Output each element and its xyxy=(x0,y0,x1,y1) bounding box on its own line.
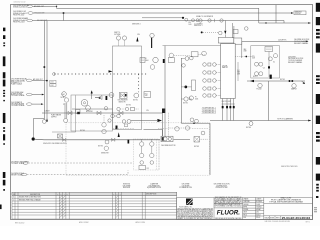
svg-text:NOTE 6: NOTE 6 xyxy=(246,127,251,129)
wire G5 xyxy=(32,94,43,96)
pump suction line pair xyxy=(65,103,67,118)
riser pair lower segment xyxy=(163,46,166,137)
dashes right of eductor xyxy=(200,138,209,140)
circles in box C xyxy=(273,54,277,58)
diffuser labels xyxy=(202,108,216,115)
black mark on riser pair xyxy=(163,59,165,63)
long signal riser pair left xyxy=(43,21,45,120)
small circles on line xyxy=(108,119,111,122)
cylinder manifold dashed box xyxy=(134,139,160,170)
riser foot instruments xyxy=(42,120,46,124)
svg-text:FROM FIC-1003: FROM FIC-1003 xyxy=(13,22,25,24)
svg-text:REV 1: REV 1 xyxy=(276,218,280,220)
instrument AIT circle xyxy=(62,92,67,97)
signal tag group G2 texts xyxy=(13,11,28,16)
second pump circle xyxy=(86,106,91,111)
gate valve 1 on main line xyxy=(68,111,72,114)
black node on riser xyxy=(184,86,187,89)
arrowhead header right xyxy=(308,120,311,122)
svg-text:NOTE 5: NOTE 5 xyxy=(183,102,188,104)
svg-text:I-102: I-102 xyxy=(50,85,53,87)
arrowhead G5 to riser xyxy=(42,94,44,96)
svg-text:NOTE 4: NOTE 4 xyxy=(126,105,131,107)
box C micro labels xyxy=(252,56,275,78)
middle column dense rows xyxy=(215,196,242,207)
top band instrument circles xyxy=(116,36,120,40)
clarifier inlet stub xyxy=(33,119,44,136)
black arrow top band xyxy=(136,37,138,42)
svg-text:2-INCH PVC: 2-INCH PVC xyxy=(288,56,296,58)
svg-text:3-INCH PVC CHLORINE SOLUTION: 3-INCH PVC CHLORINE SOLUTION xyxy=(43,143,67,145)
svg-text:1-IN: 1-IN xyxy=(146,110,149,112)
svg-text:PROJ: PROJ xyxy=(243,214,247,216)
svg-text:CHLORINE FLOW: CHLORINE FLOW xyxy=(13,11,26,13)
instrument row 2 xyxy=(203,71,221,75)
signal tag G6 oval xyxy=(26,103,32,106)
black arrow into riser xyxy=(131,120,157,122)
instruments on solution pipe xyxy=(105,140,109,144)
svg-text:CHLOR-: CHLOR- xyxy=(222,66,228,68)
water supply pipe 2-inch to right xyxy=(242,40,308,42)
existing equipment boundary box xyxy=(66,123,209,175)
signal tag G7 oval xyxy=(23,162,28,165)
suction instrument circles xyxy=(64,98,68,102)
svg-text:REV 04/22/02: REV 04/22/02 xyxy=(15,222,25,224)
svg-text:CH: CH xyxy=(116,194,118,196)
svg-text:25-04-EF-204-00104: 25-04-EF-204-00104 xyxy=(282,216,311,220)
address paragraph xyxy=(177,207,213,220)
signal tag G5 oval xyxy=(26,93,32,96)
solution header to clarifiers xyxy=(210,120,311,122)
small strainer box xyxy=(58,134,63,138)
small relay box above xyxy=(233,30,238,34)
svg-text:VENT TO: VENT TO xyxy=(114,32,121,34)
svg-text:DISTRIBUTION: DISTRIBUTION xyxy=(216,185,227,187)
bold valve stem top band xyxy=(151,38,153,48)
svg-text:1006: 1006 xyxy=(195,98,198,100)
node tie G2-G3 xyxy=(63,13,65,21)
svg-text:TYPICAL INSTRUMENTATION DIAGRA: TYPICAL INSTRUMENTATION DIAGRAM xyxy=(269,200,303,203)
svg-text:NOTE 8: NOTE 8 xyxy=(194,146,199,148)
instrument row below line xyxy=(111,114,115,118)
eductor feed elbow xyxy=(144,130,163,136)
svg-text:LINE: LINE xyxy=(237,73,240,75)
control valve on box A top area xyxy=(120,92,128,98)
auxiliary signal wire xyxy=(142,17,182,19)
approvals column rows xyxy=(243,197,262,219)
svg-text:INJECTOR: INJECTOR xyxy=(119,101,126,103)
svg-text:XXX-104: XXX-104 xyxy=(295,13,301,15)
circle right of boxes xyxy=(245,27,249,31)
signal tag group G5 texts xyxy=(11,91,25,97)
riser to header xyxy=(267,81,269,121)
section header label 4 xyxy=(214,184,230,190)
svg-text:PIPING SYSTEM: PIPING SYSTEM xyxy=(216,187,228,189)
svg-text:CL2: CL2 xyxy=(147,168,150,170)
svg-text:04/22/02 11:42: 04/22/02 11:42 xyxy=(14,1,26,3)
existing chlorinator boundary box C xyxy=(251,46,280,78)
svg-text:OUTSIDE: OUTSIDE xyxy=(114,34,120,36)
section header label 1 xyxy=(123,184,131,190)
svg-text:CL2: CL2 xyxy=(237,70,240,72)
black mark at riser pair bottom xyxy=(162,109,165,114)
block to box C tie xyxy=(235,56,252,58)
instrument air dashed header xyxy=(54,73,147,75)
svg-text:T.WONG: T.WONG xyxy=(256,206,261,208)
sample line to analyzers xyxy=(247,80,305,82)
clarifier outlet pipe xyxy=(35,138,160,141)
chlorinator outlet drop wires xyxy=(223,99,234,121)
svg-text:CHLORINE: CHLORINE xyxy=(182,184,190,186)
below line instruments left xyxy=(102,123,106,127)
svg-text:NO: NO xyxy=(13,194,15,196)
drop manifold tie xyxy=(222,103,235,105)
svg-text:J.SMITH: J.SMITH xyxy=(256,198,261,200)
svg-text:TO DIFFUSER NO. 3: TO DIFFUSER NO. 3 xyxy=(202,112,216,114)
small box below cluster xyxy=(139,166,146,170)
svg-text:V-3: V-3 xyxy=(263,67,265,69)
arrowhead at right frame xyxy=(308,22,311,24)
panel boundary box A xyxy=(113,46,142,130)
manifold stems xyxy=(142,139,152,153)
svg-text:CH: CH xyxy=(60,194,62,196)
relay box lower right xyxy=(194,137,200,143)
gate valve 3 on main line xyxy=(119,111,123,114)
labels right of box C xyxy=(288,56,303,64)
microtext below frame xyxy=(15,220,310,224)
pressure gauge on riser xyxy=(184,97,188,101)
svg-text:FILE: FILE xyxy=(243,217,246,219)
rotameter circle in box B xyxy=(153,57,158,62)
svg-text:CHLORINE SOLUTION: CHLORINE SOLUTION xyxy=(294,39,309,41)
wire G7 xyxy=(28,162,133,164)
svg-text:BY: BY xyxy=(57,194,59,196)
seal pot xyxy=(192,80,196,91)
svg-text:NONE: NONE xyxy=(270,218,274,220)
node at wire end xyxy=(182,17,184,19)
svg-text:1-IN: 1-IN xyxy=(137,34,140,36)
fluor logo square xyxy=(186,199,193,206)
instrument row 1 xyxy=(203,63,221,67)
node G4 on riser xyxy=(46,80,48,82)
circle at panel left edge xyxy=(150,65,155,70)
small box in box C xyxy=(265,47,273,52)
svg-text:I-101: I-101 xyxy=(50,81,53,83)
instrument row on discharge xyxy=(104,107,107,110)
gas outlet line right of block xyxy=(241,41,243,58)
signal tag G8 oval xyxy=(22,173,27,176)
wire down to regulator xyxy=(224,21,226,31)
right margin zone marks xyxy=(316,3,320,198)
gate valve 2 on main line xyxy=(97,111,101,114)
clarifier outlet node xyxy=(32,137,35,140)
wire G2 xyxy=(33,12,292,14)
black mark in box C xyxy=(268,66,270,68)
svg-text:NOTE 3: NOTE 3 xyxy=(98,145,103,147)
svg-text:EXISTING: EXISTING xyxy=(123,184,131,186)
title block outline xyxy=(177,198,313,220)
riser branch circle xyxy=(182,64,186,68)
svg-text:2-INCH PVC: 2-INCH PVC xyxy=(278,40,287,42)
vacuum line instruments xyxy=(168,113,170,138)
valve on solution pipe xyxy=(63,138,66,141)
svg-text:TO DIFFUSER NO. 2: TO DIFFUSER NO. 2 xyxy=(202,110,216,112)
wire G4 xyxy=(32,79,46,81)
signal tag group G6 texts xyxy=(11,101,25,107)
svg-text:600524: 600524 xyxy=(256,214,261,216)
instrument row 4 xyxy=(203,87,221,91)
signal tag group G3 texts xyxy=(13,17,29,23)
pump circle in box P xyxy=(81,100,88,107)
section header label 2 xyxy=(147,183,162,190)
destination tag G2 xyxy=(294,11,306,15)
bottom-left signal group G8 xyxy=(11,172,24,177)
svg-text:1005: 1005 xyxy=(189,24,192,26)
wire G6 xyxy=(32,103,42,105)
svg-text:D.LEE: D.LEE xyxy=(256,204,260,206)
wire pair into second box xyxy=(233,23,234,38)
black up arrow below box A xyxy=(118,132,120,137)
black valve mark in box P xyxy=(106,96,108,100)
svg-text:CHLORINE SOLUTION: CHLORINE SOLUTION xyxy=(214,184,230,186)
svg-text:EQUIPMENT ROOM: EQUIPMENT ROOM xyxy=(147,187,162,189)
svg-text:ISSUED FOR CONSTRUCTION: ISSUED FOR CONSTRUCTION xyxy=(19,197,41,199)
instrument on outlet riser xyxy=(189,96,193,100)
signal tag group G1 texts xyxy=(13,4,29,9)
eductor body xyxy=(161,136,173,141)
node on G1 wire xyxy=(56,6,57,7)
svg-text:BOOSTER: BOOSTER xyxy=(86,111,93,113)
main water supply line xyxy=(42,112,163,114)
pump discharge header xyxy=(72,108,113,110)
revision table xyxy=(12,192,177,219)
black tick below xyxy=(128,140,130,144)
svg-text:1009: 1009 xyxy=(252,58,255,60)
svg-text:BY: BY xyxy=(113,194,115,196)
svg-text:NOTE 2: NOTE 2 xyxy=(133,100,138,102)
node on collector xyxy=(265,22,266,23)
vacuum line right of block xyxy=(237,62,239,81)
signal tag G2 oval xyxy=(28,12,34,15)
black valve at box C bottom xyxy=(270,75,272,79)
drop valve nodes xyxy=(222,106,224,108)
svg-text:1007: 1007 xyxy=(145,95,148,97)
signal tag group G4 texts xyxy=(11,78,27,86)
svg-text:FLUOR.: FLUOR. xyxy=(217,211,241,217)
svg-text:SEE NOTES THIS DWG: SEE NOTES THIS DWG xyxy=(281,166,298,168)
injector symbol at box P top xyxy=(95,96,102,100)
panel top edge line xyxy=(163,45,221,47)
pump house boundary box P xyxy=(71,95,113,131)
wire G3 xyxy=(33,21,285,24)
manifold valve circles xyxy=(140,142,155,165)
svg-text:SEE NOTE 7: SEE NOTE 7 xyxy=(101,153,109,155)
svg-text:DT: DT xyxy=(67,194,69,196)
left margin zone marks xyxy=(0,28,5,210)
instrument row 3 xyxy=(203,79,221,83)
wire G1 xyxy=(33,6,259,23)
signal tag G1 oval xyxy=(27,5,33,8)
wire from frame top xyxy=(275,5,277,23)
sample instruments xyxy=(292,84,296,88)
svg-text:DESIGN: DESIGN xyxy=(243,204,248,206)
drawing title xyxy=(269,196,303,203)
circles row 2 in box C xyxy=(255,72,259,76)
svg-text:TO DIFFUSER NO. 1: TO DIFFUSER NO. 1 xyxy=(202,108,216,110)
analyzer circle on box A edge xyxy=(109,93,114,98)
svg-text:CL2 SUPPLY: CL2 SUPPLY xyxy=(194,23,203,25)
arrowhead G6 to riser xyxy=(41,103,43,105)
air filter box at box A corner xyxy=(140,58,145,63)
svg-text:BUILDING: BUILDING xyxy=(123,187,131,189)
eductor outlet xyxy=(174,138,191,140)
inner tie line in box C xyxy=(268,52,270,78)
section header label 3 xyxy=(179,184,192,190)
flow elements on signal line xyxy=(199,19,202,22)
building bottom edge left xyxy=(52,95,76,132)
svg-text:SEE NOTE 4: SEE NOTE 4 xyxy=(132,24,141,26)
svg-text:PID-04: PID-04 xyxy=(256,217,260,219)
supply dashed branch with node xyxy=(201,31,203,33)
arrow up in box P xyxy=(91,90,93,93)
instrument bubbles at node xyxy=(185,18,188,21)
dashed risers right of cluster xyxy=(156,139,159,170)
bottom-left signal group G7 xyxy=(11,160,29,165)
svg-text:NOTE 5: NOTE 5 xyxy=(280,79,285,81)
svg-text:FROM FIT-1002: FROM FIT-1002 xyxy=(13,15,24,17)
instrument air branch down xyxy=(138,74,140,92)
chlorinator main block xyxy=(221,44,236,99)
revision approval slashes xyxy=(60,195,119,217)
interlock tags right of riser xyxy=(50,80,56,83)
sample line end hook xyxy=(302,81,306,84)
wire top collector to right frame xyxy=(259,22,311,24)
svg-text:SEE NOTE 1: SEE NOTE 1 xyxy=(194,25,203,27)
svg-text:DESCRIPTION: DESCRIPTION xyxy=(146,194,156,196)
row of devices above instrument rows xyxy=(191,52,198,57)
svg-text:CHECKED: CHECKED xyxy=(243,201,249,203)
signal tag G4 oval xyxy=(26,79,32,82)
regulator box lower box B xyxy=(144,92,151,98)
right margin micro marks near title block xyxy=(314,207,317,212)
arrowhead sample line left xyxy=(250,80,254,82)
instrument row 5 xyxy=(203,94,221,98)
svg-text:CHLORINE: CHLORINE xyxy=(123,185,131,187)
node on riser xyxy=(44,66,46,68)
svg-text:LINE: LINE xyxy=(244,51,247,53)
svg-text:SHT 1: SHT 1 xyxy=(306,221,310,223)
signal tag G3 oval xyxy=(27,19,33,22)
arrowhead 2-inch pipe xyxy=(306,41,309,43)
vacuum regulator boxes on block top xyxy=(218,37,234,43)
svg-text:SUPPLY: SUPPLY xyxy=(51,116,57,118)
wire G8 xyxy=(27,170,128,175)
svg-text:V-NOTCH UNIT: V-NOTCH UNIT xyxy=(222,101,232,103)
svg-text:PI-1008: PI-1008 xyxy=(257,88,262,90)
svg-text:NOTE 9: NOTE 9 xyxy=(80,130,85,132)
lower-left instruments in box xyxy=(104,146,108,150)
svg-text:CHLORINE SOLUTION: CHLORINE SOLUTION xyxy=(288,58,303,60)
svg-text:R.JONES: R.JONES xyxy=(256,201,262,203)
black arrow on box A left edge xyxy=(109,70,113,72)
header branch circle xyxy=(249,122,253,126)
svg-text:4/02: 4/02 xyxy=(256,212,259,214)
valve with actuator right of pair xyxy=(168,58,174,63)
svg-text:CHLORINE EDUCTOR: CHLORINE EDUCTOR xyxy=(161,145,175,147)
instruments at gas line corner xyxy=(190,118,194,122)
svg-text:1004: 1004 xyxy=(145,60,149,62)
svg-text:3-INCH: 3-INCH xyxy=(45,111,50,113)
svg-text:CYLINDER: CYLINDER xyxy=(182,185,191,187)
gas line riser xyxy=(181,58,210,175)
sample line nodes xyxy=(289,80,291,82)
svg-text:P.ENGR: P.ENGR xyxy=(243,209,248,211)
svg-text:DESCRIPTION: DESCRIPTION xyxy=(30,194,40,196)
svg-text:V-2: V-2 xyxy=(273,62,275,64)
riser top instruments xyxy=(185,57,189,61)
